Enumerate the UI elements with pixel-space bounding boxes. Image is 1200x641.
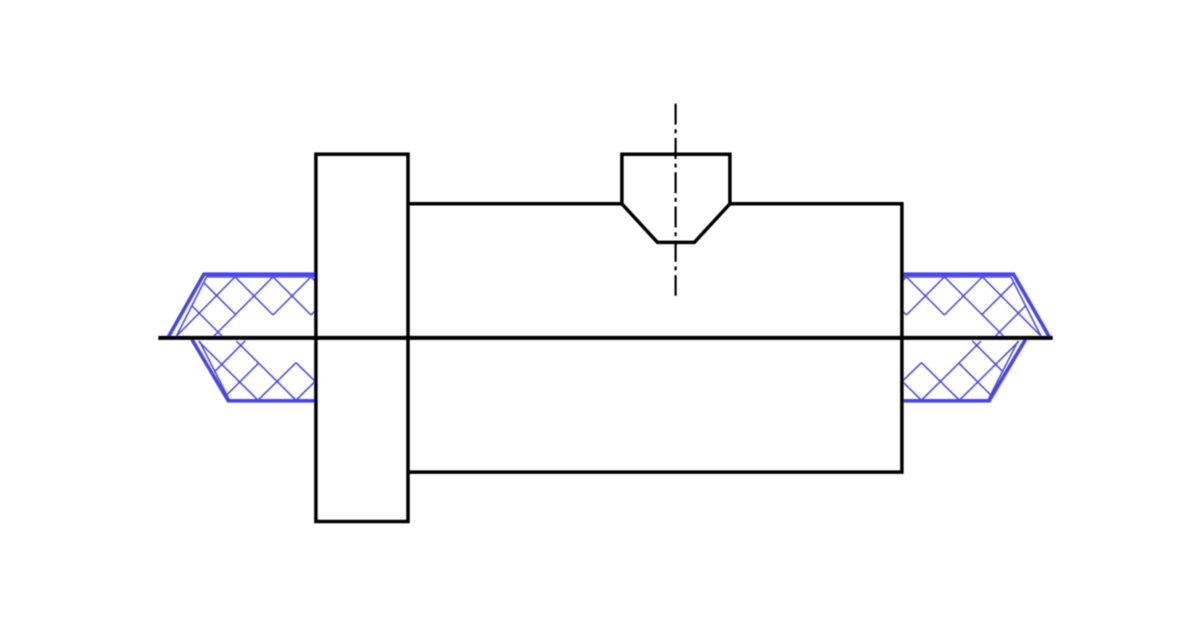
- hatch line / from valley 921 to axis: [921, 341, 981, 400]
- left stud lower half: thick outline: [192, 339, 316, 401]
- left stud upper half: thick outline: [168, 274, 316, 337]
- hatch line \ from valley 921 to body edge: [902, 382, 921, 401]
- hatch line / off slant upper: [981, 283, 1013, 315]
- right stud lower half: hatch group: [902, 341, 1018, 400]
- horizontal centerline: [158, 336, 1052, 340]
- body top right edge, right edge and bottom edge: [408, 204, 902, 472]
- hatch line / from valley 959 to axis: [959, 341, 1018, 400]
- hatch stub \ from body edge: [902, 311, 906, 315]
- hatch line / from peak 235 to axis: [177, 277, 236, 336]
- hatch line \ from valley 296 to axis: [236, 341, 296, 400]
- funnel port outline: [621, 154, 731, 242]
- hatch line / off slant lower: [227, 363, 259, 395]
- thin inner slant line: [1011, 277, 1041, 336]
- hatch line \ off slant upper: [204, 283, 236, 315]
- hatch line \ from peak 235: [235, 277, 273, 315]
- hatch line / from peak 311: [273, 277, 311, 315]
- right stud lower half: thick outline: [901, 339, 1026, 401]
- thin inner top line: [207, 276, 317, 278]
- left stud lower half: hatch group: [199, 341, 315, 400]
- hatch line \ from peak 906: [906, 277, 944, 315]
- hatch stub / from flange edge: [311, 311, 315, 315]
- hatch stub / from body edge: [902, 363, 921, 382]
- hatch line \ from peak 982 to axis: [982, 277, 1041, 336]
- hatch line / from valley 296 to flange: [296, 382, 315, 401]
- left stud upper half: hatch group: [177, 277, 317, 336]
- right stud upper half: thick outline: [901, 274, 1049, 337]
- hatch line / off slant upper: [214, 341, 245, 372]
- hatch line \ off slant lower: [192, 306, 222, 336]
- hatch line / from valley 258: [258, 363, 296, 401]
- hatch stub \ from peak 311 to flange: [311, 277, 315, 281]
- hatch line / from peak 982: [944, 277, 982, 315]
- flange rectangle: [316, 154, 408, 521]
- hatch line / from peak 944: [906, 277, 944, 315]
- hatch line \ off slant upper: [972, 341, 1003, 372]
- vertical axis dash-dot line: [674, 104, 676, 296]
- hatch line \ from valley 258 to axis: [199, 341, 258, 400]
- body top edge left segment: [408, 202, 622, 206]
- hatch line \ from peak 944 to axis: [944, 277, 1003, 336]
- hatch stub \ from flange edge: [296, 363, 315, 382]
- thin inner slant line: [177, 277, 207, 336]
- hatch line \ off slant lower: [958, 363, 990, 395]
- hatch stub / from peak 906 to body edge: [902, 277, 906, 281]
- hatch line / from peak 273 to axis: [214, 277, 273, 336]
- hatch line \ from valley 959: [921, 363, 959, 401]
- thin inner slant line: [199, 341, 229, 400]
- hatch line \ from peak 273: [273, 277, 311, 315]
- right stud upper half: hatch group: [901, 277, 1041, 336]
- thin inner top line: [901, 276, 1011, 278]
- thin inner slant line: [988, 341, 1018, 400]
- hatch line / off slant lower: [995, 306, 1025, 336]
